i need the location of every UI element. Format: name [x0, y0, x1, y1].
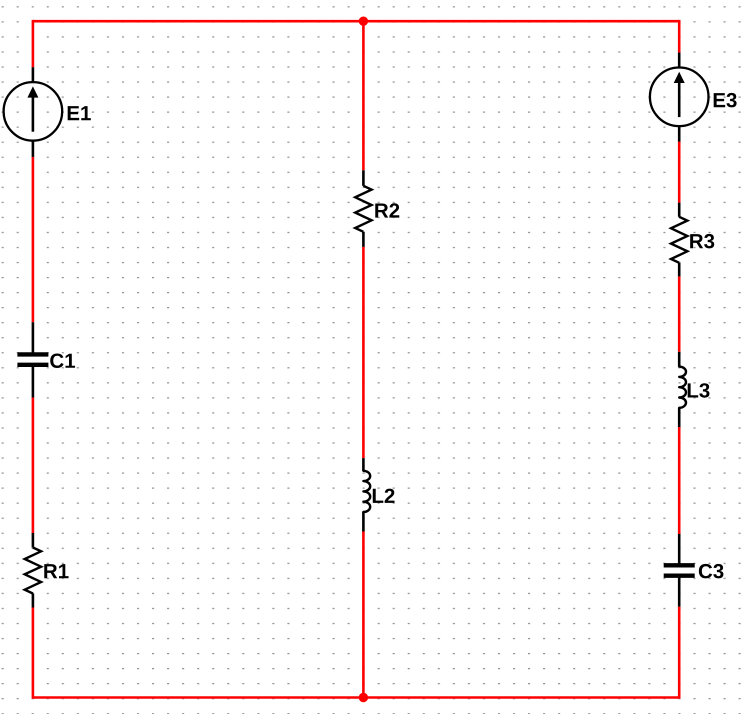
wire C1 to R1 — [32, 398, 35, 534]
label L3 — [688, 383, 710, 398]
wire E3 to R3 — [678, 142, 681, 203]
wire L2 to bottom bus — [362, 532, 365, 698]
wire L3 to C3 — [678, 427, 681, 534]
wire left top (top bus to E1) — [32, 20, 35, 67]
resistor R2 — [362, 170, 365, 186]
wire top bus to R2 — [362, 21, 365, 170]
junction node top (middle branch / top bus) — [359, 17, 368, 26]
label R3 — [690, 234, 714, 249]
label L2 — [373, 489, 395, 503]
inductor L2 — [362, 458, 365, 471]
resistor R3 — [678, 203, 681, 217]
wire E1 to C1 — [32, 157, 35, 322]
current source E1 — [32, 67, 35, 82]
label E1 — [68, 106, 91, 120]
current source E3 — [678, 53, 681, 68]
inductor L3 — [678, 352, 681, 367]
label E3 — [714, 93, 737, 108]
label C3 — [699, 564, 724, 579]
wire R2 to L2 — [362, 247, 365, 458]
wire top bus — [33, 20, 679, 23]
resistor R1 — [32, 533, 35, 548]
wire C3 to bottom bus — [678, 607, 681, 699]
junction node bottom (middle branch / bottom bus) — [359, 693, 368, 702]
wire bottom bus — [33, 696, 679, 699]
capacitor C3 — [678, 534, 681, 565]
wire top bus to E3 — [678, 20, 681, 53]
label C1 — [50, 353, 75, 368]
capacitor C1 — [32, 322, 35, 354]
wire R3 to L3 — [678, 276, 681, 351]
label R2 — [375, 203, 399, 217]
label R1 — [44, 564, 68, 578]
wire R1 to bottom bus — [32, 608, 35, 699]
